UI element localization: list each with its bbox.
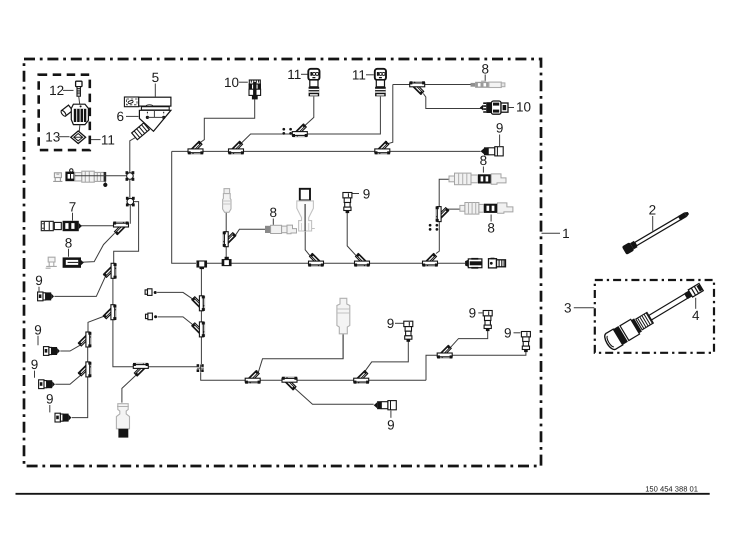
svg-text:11: 11 [101, 132, 115, 147]
svg-text:9: 9 [387, 417, 395, 432]
svg-text:9: 9 [363, 186, 371, 201]
svg-text:10: 10 [224, 75, 239, 90]
svg-text:6: 6 [117, 109, 125, 124]
svg-text:8: 8 [270, 205, 278, 220]
svg-text:9: 9 [387, 316, 395, 331]
svg-text:4: 4 [692, 308, 700, 323]
svg-text:5: 5 [152, 70, 160, 85]
svg-text:9: 9 [31, 357, 39, 372]
svg-text:9: 9 [504, 326, 512, 341]
svg-text:9: 9 [34, 322, 42, 337]
svg-text:8: 8 [481, 61, 489, 76]
svg-text:12: 12 [49, 83, 64, 98]
svg-text:9: 9 [496, 120, 504, 135]
svg-text:9: 9 [46, 392, 54, 407]
svg-text:3: 3 [564, 301, 572, 316]
svg-text:8: 8 [65, 236, 73, 251]
svg-text:8: 8 [480, 153, 488, 168]
svg-text:11: 11 [352, 68, 366, 83]
svg-text:150 454 388 01: 150 454 388 01 [645, 484, 698, 493]
svg-text:9: 9 [469, 306, 477, 321]
svg-text:1: 1 [562, 226, 570, 241]
svg-text:7: 7 [69, 199, 77, 214]
svg-text:2: 2 [649, 203, 657, 218]
svg-text:10: 10 [516, 99, 531, 114]
svg-text:11: 11 [287, 67, 301, 82]
svg-text:13: 13 [45, 130, 60, 145]
svg-text:8: 8 [487, 220, 495, 235]
svg-text:9: 9 [35, 273, 43, 288]
